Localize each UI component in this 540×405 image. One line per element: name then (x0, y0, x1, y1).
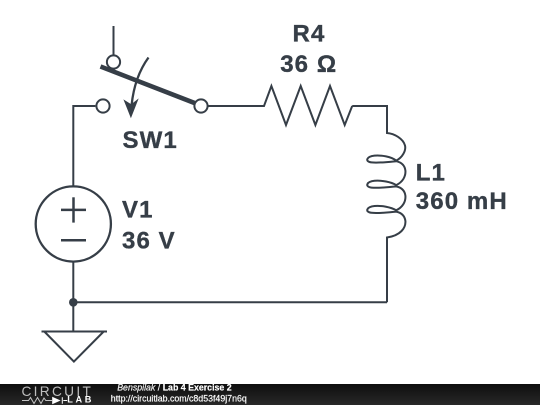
svg-text:36 V: 36 V (122, 228, 176, 255)
svg-text:LAB: LAB (67, 395, 94, 405)
svg-text:Benspilak / Lab 4 Exercise 2: Benspilak / Lab 4 Exercise 2 (117, 382, 232, 392)
svg-text:V1: V1 (122, 197, 154, 224)
svg-text:360 mH: 360 mH (416, 188, 508, 215)
svg-text:SW1: SW1 (123, 127, 178, 154)
svg-text:L1: L1 (416, 160, 446, 187)
svg-text:R4: R4 (293, 21, 326, 48)
svg-text:36 Ω: 36 Ω (280, 51, 337, 78)
svg-text:http://circuitlab.com/c8d53f49: http://circuitlab.com/c8d53f49j7n6q (111, 393, 247, 403)
